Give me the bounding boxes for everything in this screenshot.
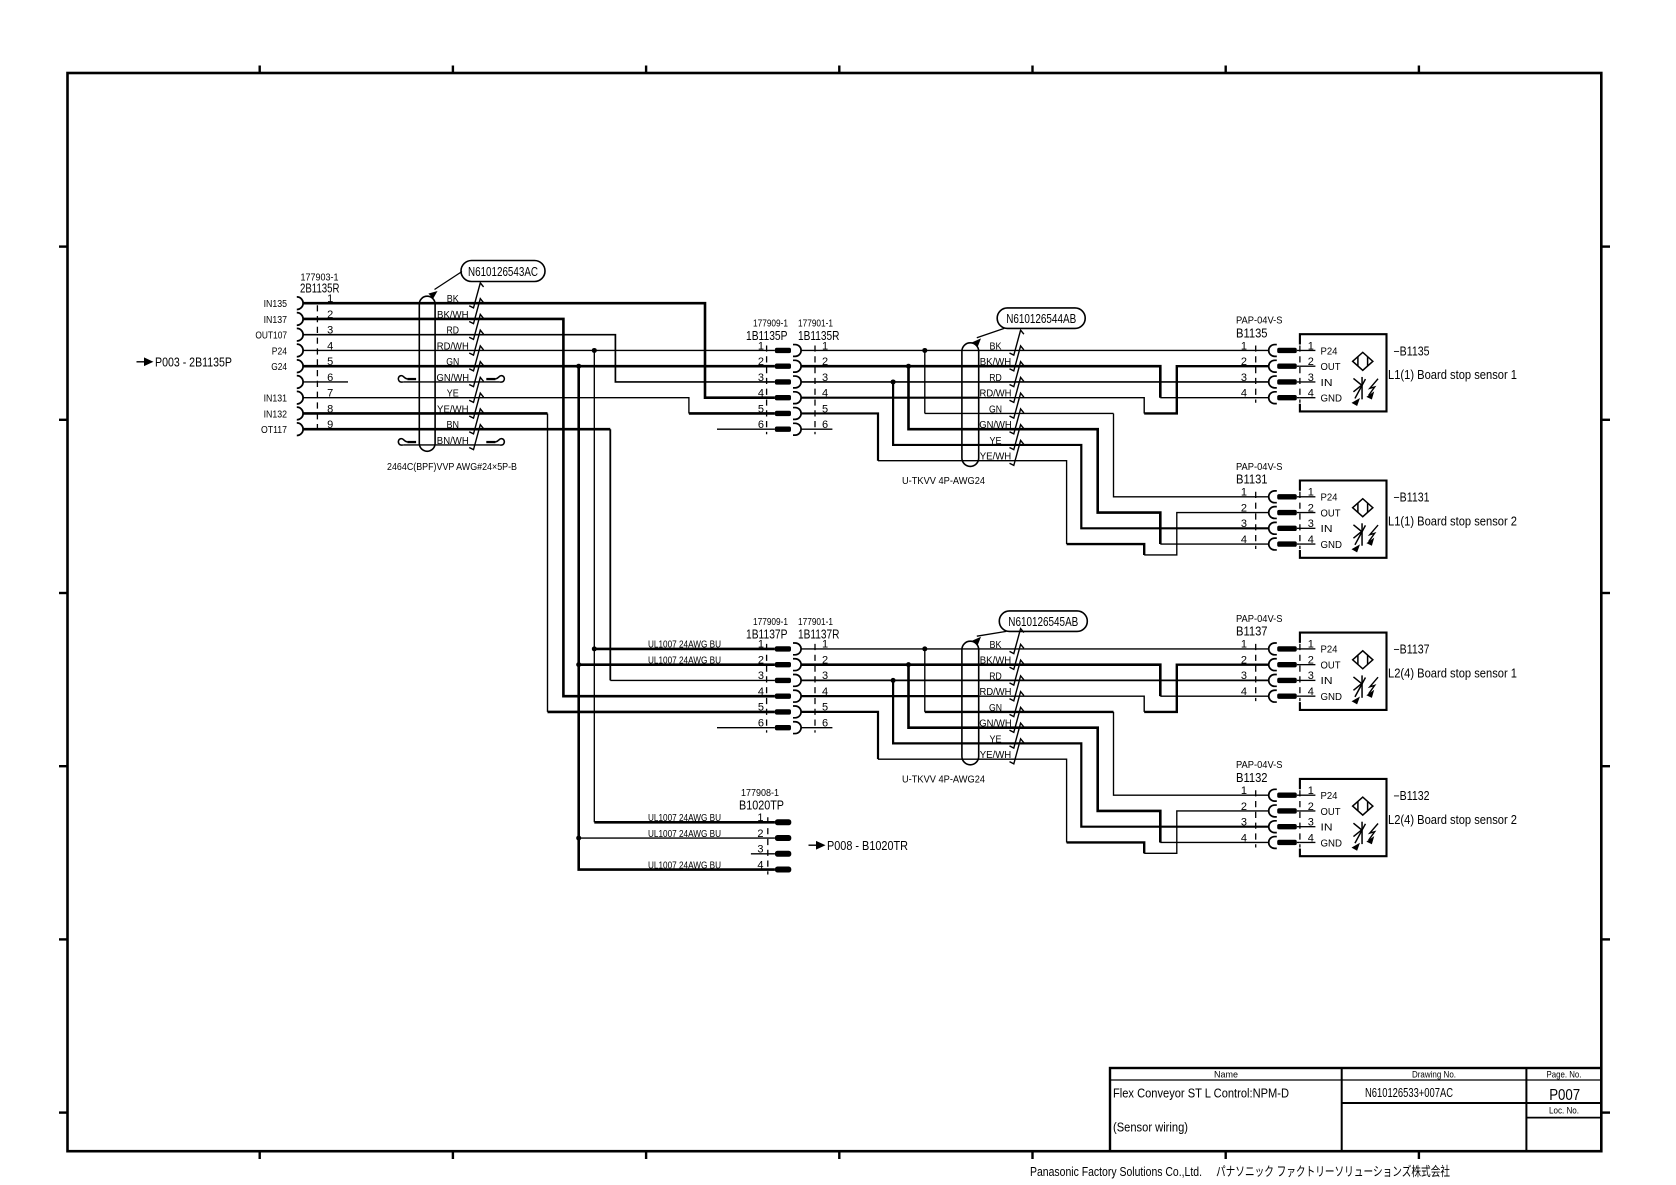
- wire 1B1137P pin3 lead-in: [610, 679, 775, 681]
- svg-text:2: 2: [1241, 801, 1247, 813]
- wire GN descent to B1132 pin1: [1114, 712, 1269, 795]
- svg-text:IN: IN: [1321, 675, 1333, 687]
- wire YE/WH descent (B1131): [878, 461, 1067, 544]
- svg-text:1: 1: [1241, 487, 1247, 499]
- svg-text:G24: G24: [271, 362, 287, 373]
- svg-text:P008 - B1020TR: P008 - B1020TR: [827, 839, 908, 853]
- svg-text:1: 1: [1308, 785, 1314, 797]
- wire IN jog rise to B1135 pin2: [1144, 366, 1268, 413]
- svg-text:2464C(BPF)VVP AWG#24×5P-B: 2464C(BPF)VVP AWG#24×5P-B: [387, 461, 517, 473]
- svg-text:177901-1: 177901-1: [798, 616, 833, 628]
- svg-text:P24: P24: [1321, 644, 1338, 656]
- junction OUT/YE branch: [891, 678, 896, 683]
- junction P24/trunk: [592, 348, 597, 353]
- svg-text:N610126543AC: N610126543AC: [468, 265, 538, 279]
- svg-text:3: 3: [1241, 817, 1247, 829]
- sensor box -B1137: [1300, 633, 1387, 710]
- stub pin6 row right: [801, 428, 832, 430]
- junction G24/GNWH branch: [906, 364, 911, 369]
- connector pair 1B1137P/1B1137R (177909-1/177901-1): [746, 616, 840, 734]
- cable wire colour labels BK..YE/WH (bottom): [979, 640, 1012, 761]
- wire G24 branch to 1B1137P pin2: [579, 663, 775, 666]
- svg-text:OUT: OUT: [1321, 507, 1342, 519]
- unused core GN/WH wire: [403, 381, 499, 383]
- svg-text:B1137: B1137: [1236, 625, 1268, 639]
- junction OUT/YE branch: [891, 379, 896, 384]
- wire 1B1135P pin5 lead-in: [689, 412, 775, 415]
- wire GN row (B1132): [925, 711, 1114, 713]
- svg-text:UL1007 24AWG BU: UL1007 24AWG BU: [648, 860, 721, 871]
- connector pair 1B1135P/1B1135R (177909-1/177901-1): [746, 317, 840, 435]
- wire labels UL1007 24AWG BU: [648, 640, 721, 872]
- photoelectric sensor symbol -B1135: [1353, 352, 1379, 405]
- svg-text:1B1137R: 1B1137R: [798, 627, 840, 641]
- wire IN jog rise to B1137 pin2: [1144, 665, 1268, 712]
- wire OUT row to B1137 pin3: [801, 679, 1268, 681]
- stub B1020TP pin3: [751, 853, 775, 855]
- svg-text:PAP-04V-S: PAP-04V-S: [1236, 461, 1283, 473]
- svg-text:1: 1: [757, 812, 763, 824]
- svg-text:2B1135R: 2B1135R: [300, 282, 340, 296]
- svg-text:Drawing No.: Drawing No.: [1412, 1070, 1456, 1081]
- svg-text:−B1132: −B1132: [1394, 789, 1430, 803]
- svg-text:−B1137: −B1137: [1394, 643, 1430, 657]
- svg-text:5: 5: [758, 403, 764, 415]
- svg-text:−B1135: −B1135: [1394, 344, 1430, 358]
- wire IN row to oval (B1137): [801, 695, 979, 697]
- svg-text:2: 2: [1241, 356, 1247, 368]
- svg-text:B1132: B1132: [1236, 771, 1268, 785]
- svg-text:OUT107: OUT107: [255, 331, 287, 342]
- svg-text:3: 3: [1241, 372, 1247, 384]
- svg-text:2: 2: [1241, 502, 1247, 514]
- svg-text:N610126544AB: N610126544AB: [1006, 312, 1076, 326]
- svg-text:OUT: OUT: [1321, 806, 1342, 818]
- wire IN row jog to B1137 pin2: [979, 696, 1144, 712]
- svg-text:2: 2: [1308, 654, 1314, 666]
- svg-text:2: 2: [1308, 801, 1314, 813]
- svg-text:UL1007 24AWG BU: UL1007 24AWG BU: [648, 813, 721, 824]
- svg-text:IN: IN: [1321, 377, 1333, 389]
- svg-text:GND: GND: [1321, 837, 1343, 849]
- svg-text:1: 1: [758, 340, 764, 352]
- svg-text:4: 4: [1241, 686, 1247, 698]
- svg-text:L2(4) Board stop sensor 1: L2(4) Board stop sensor 1: [1388, 667, 1517, 681]
- wire pin5 row step down to YE/WH: [801, 712, 878, 759]
- arrow to P003 - 2B1135P: [137, 355, 233, 369]
- svg-text:3: 3: [1241, 670, 1247, 682]
- svg-text:IN131: IN131: [264, 394, 288, 405]
- wire OT117 trunk down to 1B1137P pin3: [609, 429, 611, 680]
- svg-text:P24: P24: [1321, 492, 1338, 504]
- stub pin6 row left: [717, 428, 775, 430]
- svg-text:4: 4: [1308, 832, 1314, 844]
- wire B1137 pin4 feed: [1160, 695, 1268, 697]
- svg-text:UL1007 24AWG BU: UL1007 24AWG BU: [648, 829, 721, 840]
- wire P24 trunk down to B1020TP pin1: [593, 350, 595, 822]
- svg-text:4: 4: [757, 859, 763, 871]
- wire G24 branch to B1020TP pin2: [579, 837, 775, 839]
- svg-text:3: 3: [758, 670, 764, 682]
- cable label bubble N610126544AB: [997, 308, 1085, 329]
- connector B1137 (PAP-04V-S): [1236, 613, 1300, 702]
- svg-text:UL1007 24AWG BU: UL1007 24AWG BU: [648, 640, 721, 651]
- unused core BN/WH hooks: [398, 439, 504, 445]
- wire P24 row to B1135 pin1: [801, 349, 1268, 351]
- connector B1131 (PAP-04V-S): [1236, 461, 1300, 550]
- svg-text:U-TKVV 4P-AWG24: U-TKVV 4P-AWG24: [902, 475, 985, 487]
- arrow to P008 - B1020TR: [809, 839, 909, 853]
- svg-text:B1020TP: B1020TP: [739, 799, 784, 813]
- svg-text:GND: GND: [1321, 393, 1343, 405]
- svg-text:P24: P24: [1321, 790, 1338, 802]
- svg-text:2: 2: [1308, 502, 1314, 514]
- svg-text:1: 1: [1308, 639, 1314, 651]
- svg-text:PAP-04V-S: PAP-04V-S: [1236, 759, 1283, 771]
- cable shield oval N610126543AC: [419, 296, 435, 451]
- svg-text:OUT: OUT: [1321, 361, 1342, 373]
- wire P24 branch drop (B1132): [924, 649, 926, 712]
- svg-text:B1135: B1135: [1236, 326, 1268, 340]
- svg-text:177909-1: 177909-1: [753, 317, 788, 329]
- svg-text:P24: P24: [272, 346, 288, 357]
- svg-text:P003 - 2B1135P: P003 - 2B1135P: [155, 355, 232, 369]
- svg-text:2: 2: [1241, 654, 1247, 666]
- svg-text:IN: IN: [1321, 523, 1333, 535]
- svg-text:3: 3: [1308, 518, 1314, 530]
- cable breakout slash marks (bottom): [1010, 629, 1024, 764]
- svg-text:P24: P24: [1321, 345, 1338, 357]
- svg-text:Name: Name: [1214, 1070, 1238, 1081]
- svg-text:4: 4: [1241, 832, 1247, 844]
- wire OUT107 (RD) to 1B1135P pin3: [303, 335, 775, 382]
- svg-text:2: 2: [758, 654, 764, 666]
- wire G24 row jog to B1135 pin4: [801, 366, 1160, 398]
- wire IN row jog to B1135 pin2: [979, 398, 1144, 414]
- wire IN132 (YE/WH) row: [303, 412, 547, 415]
- svg-text:Page. No.: Page. No.: [1547, 1070, 1582, 1081]
- svg-text:Flex Conveyor ST L Control:NPM: Flex Conveyor ST L Control:NPM-D: [1113, 1087, 1289, 1101]
- svg-text:177901-1: 177901-1: [798, 317, 833, 329]
- photoelectric sensor symbol -B1132: [1353, 797, 1379, 850]
- svg-text:PAP-04V-S: PAP-04V-S: [1236, 314, 1283, 326]
- wire G24 branch via GN/WH to B1132 pin4: [909, 665, 1161, 843]
- cable breakout slash marks (top): [1010, 330, 1024, 465]
- svg-text:1: 1: [758, 639, 764, 651]
- svg-text:(Sensor wiring): (Sensor wiring): [1113, 1121, 1188, 1135]
- svg-text:177909-1: 177909-1: [753, 616, 788, 628]
- svg-text:4: 4: [1308, 534, 1314, 546]
- wire GN descent to B1131 pin1: [1114, 413, 1269, 496]
- wire OUT row to B1135 pin3: [801, 381, 1268, 383]
- wire pin5 row step down to YE/WH: [801, 413, 878, 460]
- svg-text:GND: GND: [1321, 691, 1343, 703]
- cable label bubble N610126543AC: [461, 261, 545, 282]
- wire YE/WH dip to B1132 pin2: [1144, 811, 1268, 853]
- svg-text:3: 3: [1308, 817, 1314, 829]
- junction G24/GNWH branch: [906, 662, 911, 667]
- svg-text:1: 1: [1308, 487, 1314, 499]
- svg-text:IN: IN: [1321, 822, 1333, 834]
- svg-text:OT117: OT117: [261, 425, 287, 436]
- svg-text:1: 1: [1241, 340, 1247, 352]
- svg-text:U-TKVV 4P-AWG24: U-TKVV 4P-AWG24: [902, 773, 985, 785]
- svg-text:GND: GND: [1321, 539, 1343, 551]
- svg-text:4: 4: [758, 388, 764, 400]
- junction P24/1B1137P pin1: [592, 646, 597, 651]
- wire OT117 (BN) row: [303, 428, 610, 431]
- wire YE/WH approach (B1131): [1067, 544, 1145, 555]
- svg-text:PAP-04V-S: PAP-04V-S: [1236, 613, 1283, 625]
- svg-text:4: 4: [1308, 388, 1314, 400]
- svg-text:N610126533+007AC: N610126533+007AC: [1365, 1086, 1453, 1100]
- photoelectric sensor symbol -B1137: [1353, 651, 1379, 704]
- cable1 wire colour labels BK..BN/WH: [437, 294, 470, 447]
- unused core GN/WH hooks: [398, 376, 504, 382]
- svg-text:2: 2: [1308, 356, 1314, 368]
- svg-text:3: 3: [1241, 518, 1247, 530]
- svg-text:IN135: IN135: [264, 299, 288, 310]
- svg-text:2: 2: [758, 356, 764, 368]
- svg-text:1: 1: [1241, 639, 1247, 651]
- svg-text:L1(1) Board stop sensor 2: L1(1) Board stop sensor 2: [1388, 514, 1517, 528]
- cable shield oval N610126544AB: [962, 343, 979, 467]
- connector B1020TP (177908-1): [739, 787, 791, 875]
- wire G24 (GN) to 1B1135P pin2: [303, 365, 775, 368]
- svg-text:UL1007 24AWG BU: UL1007 24AWG BU: [648, 655, 721, 666]
- photoelectric sensor symbol -B1131: [1353, 499, 1379, 552]
- connector B1132 (PAP-04V-S): [1236, 759, 1300, 848]
- svg-text:1: 1: [1308, 340, 1314, 352]
- svg-text:OUT: OUT: [1321, 659, 1342, 671]
- svg-text:L1(1) Board stop sensor 1: L1(1) Board stop sensor 1: [1388, 368, 1517, 382]
- title block: [1110, 1068, 1601, 1151]
- svg-text:−B1131: −B1131: [1394, 491, 1430, 505]
- svg-text:5: 5: [758, 702, 764, 714]
- wire P24 (RD/WH) to 1B1135P pin1: [303, 349, 775, 351]
- wire IN132 trunk down to 1B1137P pin5: [547, 413, 549, 711]
- wire B1020TP pin1 lead-in: [594, 821, 775, 824]
- svg-text:4: 4: [1308, 686, 1314, 698]
- wire P24 branch drop (B1131): [924, 350, 926, 413]
- svg-text:177908-1: 177908-1: [741, 787, 779, 799]
- svg-text:IN132: IN132: [264, 409, 288, 420]
- connector B1135 (PAP-04V-S): [1236, 314, 1300, 403]
- cable label bubble N610126545AB: [999, 611, 1087, 632]
- svg-text:B1131: B1131: [1236, 473, 1268, 487]
- wire OUT branch via YE to B1132 pin3: [893, 680, 1268, 826]
- svg-text:パナソニック ファクトリーソリューションズ株式会社: パナソニック ファクトリーソリューションズ株式会社: [1216, 1164, 1450, 1179]
- wire B1135 pin4 feed: [1160, 397, 1268, 399]
- wire IN row to oval (B1135): [801, 397, 979, 399]
- svg-text:IN137: IN137: [264, 315, 288, 326]
- junction G24/trunk: [576, 364, 581, 369]
- svg-text:3: 3: [1308, 372, 1314, 384]
- cable wire colour labels BK..YE/WH (top): [979, 341, 1012, 462]
- sensor box -B1132: [1300, 779, 1387, 856]
- sensor box -B1131: [1300, 481, 1387, 558]
- svg-text:1B1135R: 1B1135R: [798, 329, 840, 343]
- wire P24 row to B1137 pin1: [801, 648, 1268, 650]
- svg-text:P007: P007: [1549, 1087, 1580, 1104]
- svg-text:3: 3: [1308, 670, 1314, 682]
- wire YE/WH approach (B1132): [1067, 842, 1145, 853]
- cable1 breakout slash marks: [469, 283, 483, 450]
- svg-text:L2(4) Board stop sensor 2: L2(4) Board stop sensor 2: [1388, 813, 1517, 827]
- wire IN137 (BK/WH) down to 1B1137P pin4: [303, 319, 775, 696]
- leader arrow to N610126545AB: [977, 631, 1007, 636]
- svg-text:4: 4: [1241, 388, 1247, 400]
- wire 1B1137P pin5 lead-in: [548, 711, 775, 714]
- cable shield oval N610126545AB: [962, 641, 979, 765]
- wire IN131 (YE) step to 1B1135P pin5: [303, 398, 689, 414]
- junction P24/GN branch: [922, 646, 927, 651]
- svg-text:N610126545AB: N610126545AB: [1008, 615, 1078, 629]
- unused core BN/WH wire: [403, 444, 499, 446]
- svg-text:Loc. No.: Loc. No.: [1549, 1106, 1579, 1117]
- wire GN row (B1131): [925, 412, 1114, 414]
- wire IN135 (BK) to 1B1135P pin4: [303, 303, 775, 398]
- svg-text:1: 1: [1241, 785, 1247, 797]
- wire G24 trunk down to B1020TP pin4: [579, 366, 775, 869]
- svg-text:1B1135P: 1B1135P: [746, 329, 788, 343]
- svg-text:4: 4: [758, 686, 764, 698]
- junction G24/1B1137P pin2: [576, 662, 581, 667]
- wire B1132 pin4 feed: [1160, 841, 1268, 843]
- wire B1131 pin4 feed: [1160, 543, 1268, 545]
- svg-text:4: 4: [1241, 534, 1247, 546]
- stub pin6 row right: [801, 727, 832, 729]
- wire OUT branch via YE to B1131 pin3: [893, 382, 1268, 528]
- wire G24 row jog to B1137 pin4: [801, 665, 1160, 697]
- wire G24 branch via GN/WH to B1131 pin4: [909, 366, 1161, 544]
- svg-text:1B1137P: 1B1137P: [746, 627, 788, 641]
- wire YE/WH descent (B1132): [878, 759, 1067, 842]
- leader arrow to cable N610126543AC: [435, 272, 463, 290]
- sensor box -B1135: [1300, 334, 1387, 411]
- stub pin6 2B1135R: [303, 381, 348, 383]
- svg-text:Panasonic Factory Solutions Co: Panasonic Factory Solutions Co.,Ltd.: [1030, 1165, 1202, 1179]
- leader arrow to N610126544AB: [977, 328, 1004, 337]
- svg-text:2: 2: [757, 828, 763, 840]
- svg-text:3: 3: [758, 372, 764, 384]
- wire YE/WH dip to B1131 pin2: [1144, 513, 1268, 555]
- wire P24 branch to 1B1137P pin1: [594, 648, 775, 651]
- connector 2B1135R (177903-1) pins 1-9: [255, 272, 339, 437]
- stub pin6 row left: [717, 727, 775, 729]
- junction G24/B1020TP pin2: [576, 836, 581, 841]
- junction P24/GN branch: [922, 348, 927, 353]
